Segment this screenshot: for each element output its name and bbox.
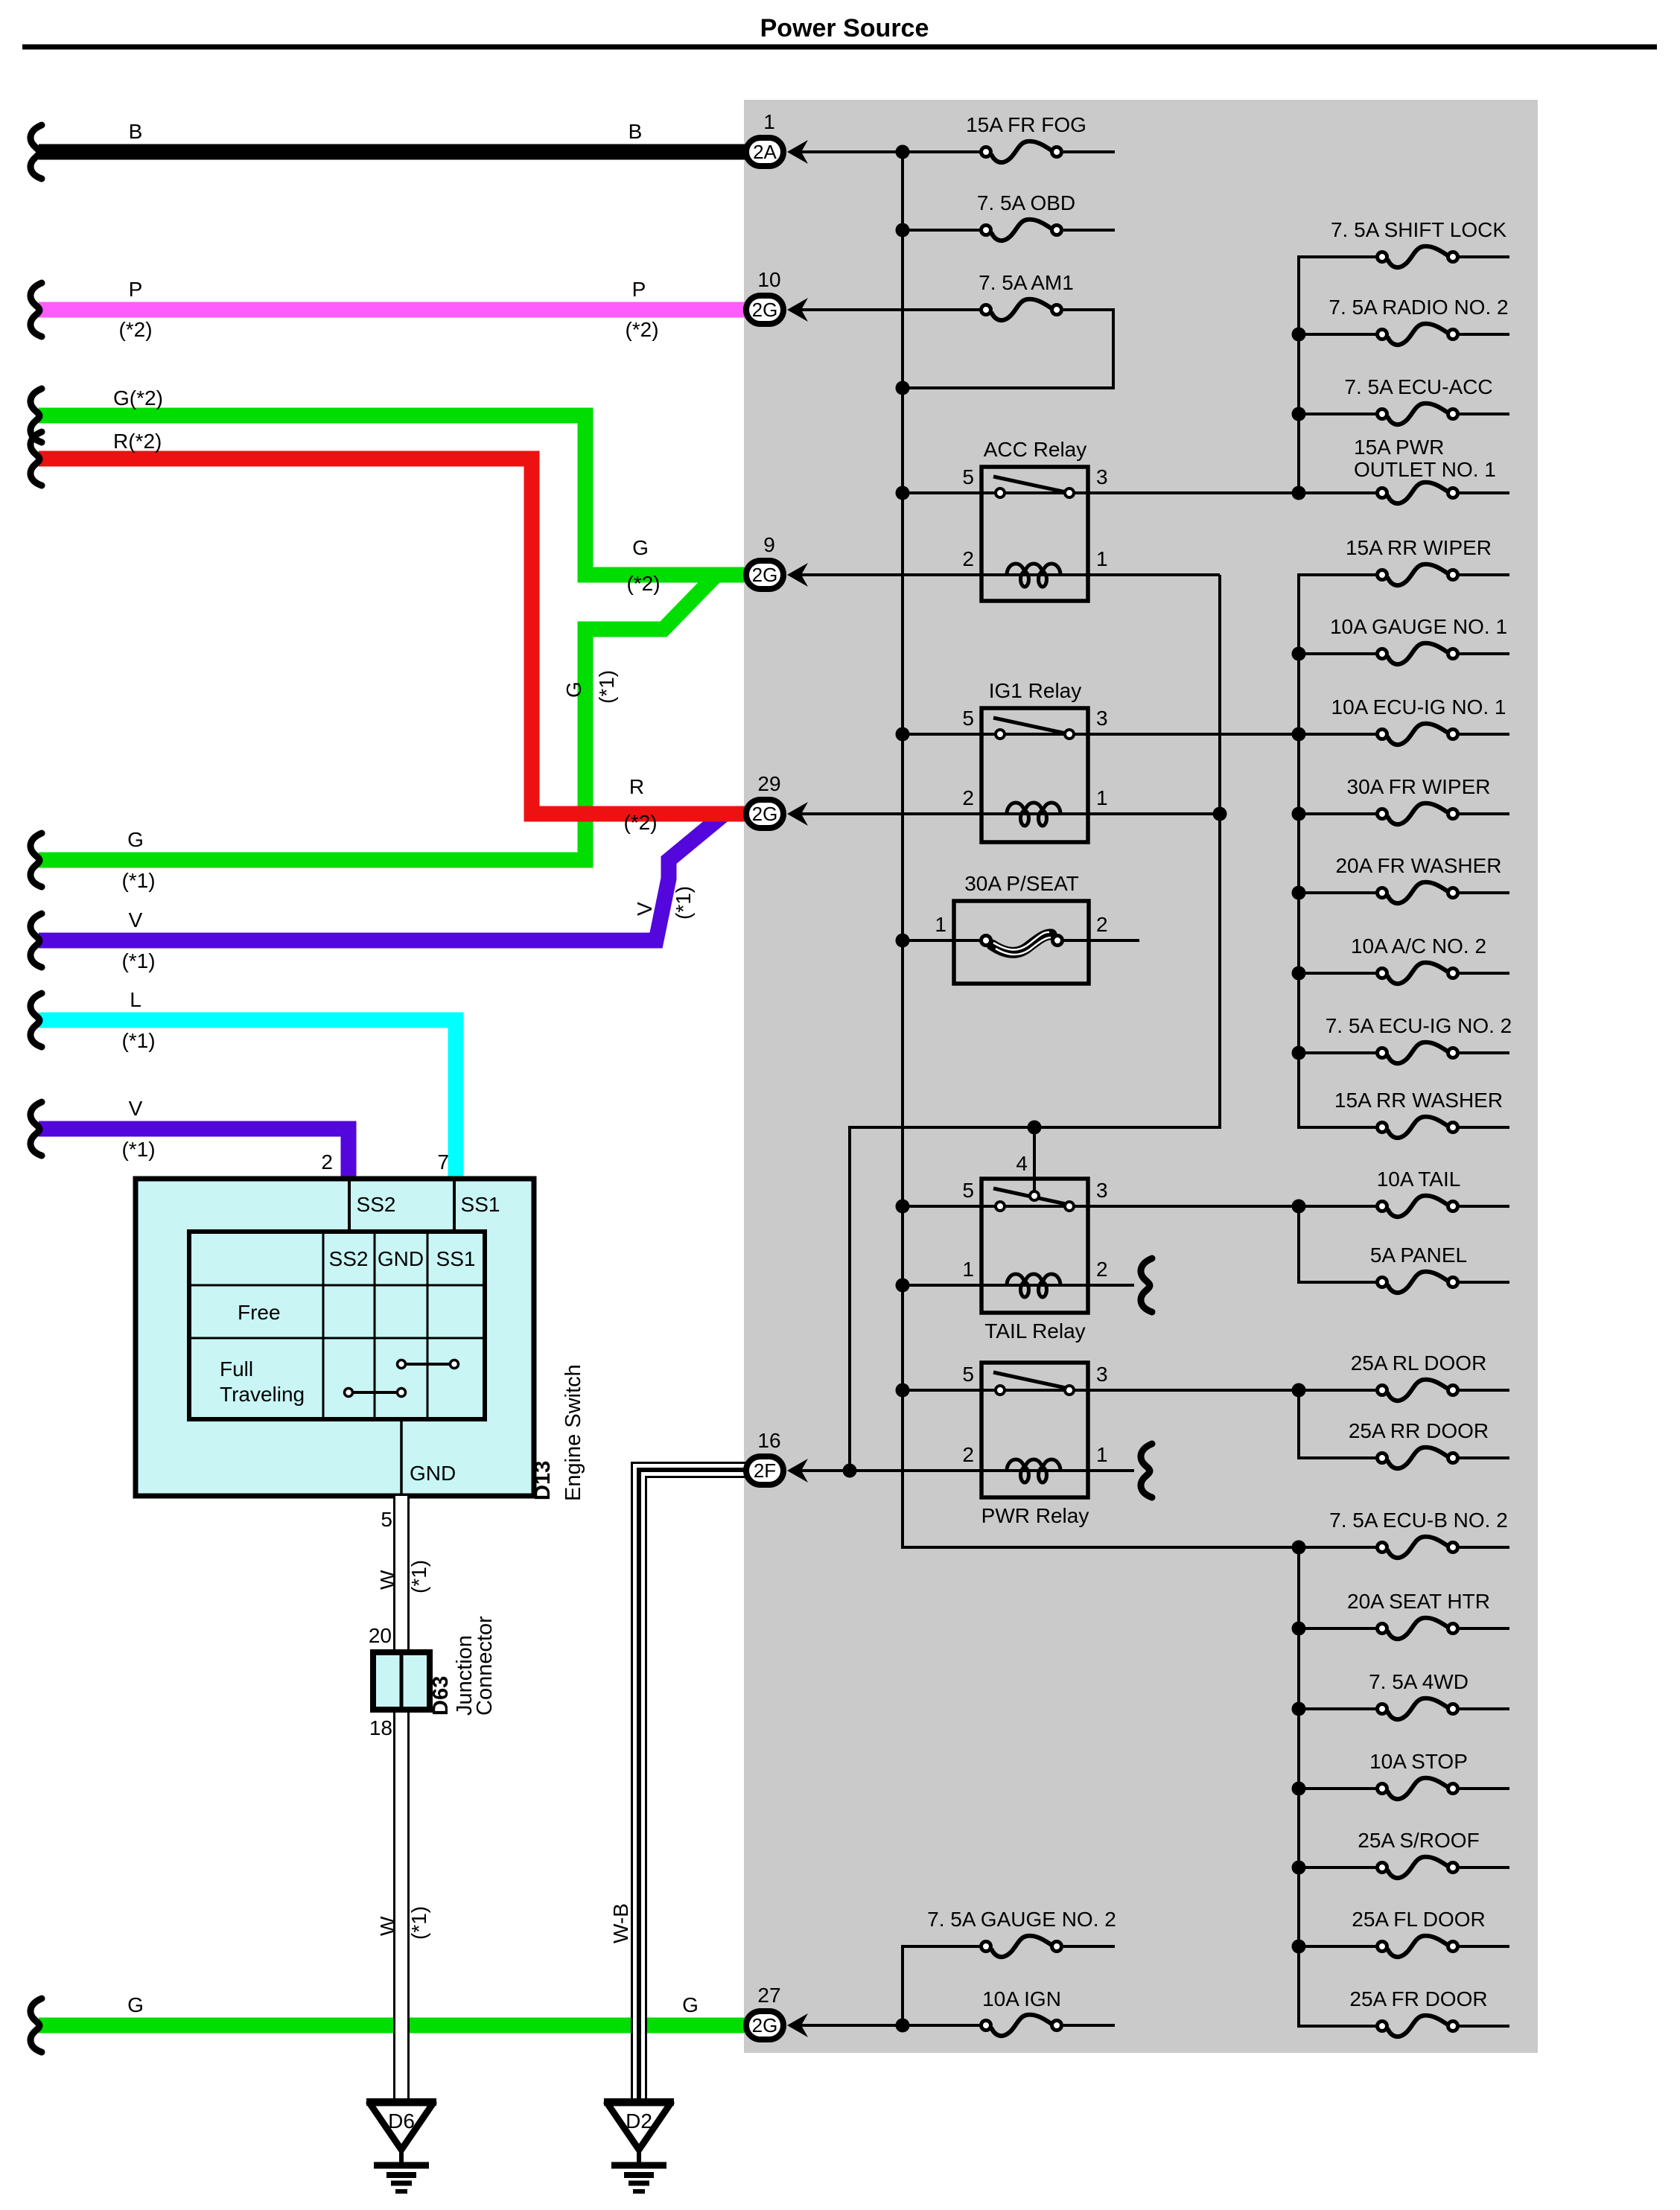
svg-text:3: 3	[1096, 1179, 1108, 1202]
wire G(*1) green	[39, 575, 748, 860]
fuse 10A STOP	[1378, 1778, 1458, 1799]
fuse 15A RR WASHER	[1378, 1117, 1458, 1138]
wire RR WIPER row	[1459, 573, 1509, 576]
door bus	[1299, 1390, 1376, 1458]
svg-text:27: 27	[757, 1984, 780, 2007]
wire GAUGE2 row	[1063, 1945, 1115, 1948]
fuse 7. 5A 4WD	[1378, 1698, 1458, 1719]
svg-text:B: B	[629, 120, 643, 143]
mid right bus (IG feed)	[1299, 575, 1376, 1127]
fuse 25A RR DOOR	[1378, 1448, 1458, 1468]
svg-text:TAIL Relay: TAIL Relay	[984, 1319, 1085, 1343]
svg-text:7. 5A SHIFT LOCK: 7. 5A SHIFT LOCK	[1331, 218, 1506, 241]
svg-text:7. 5A GAUGE NO. 2: 7. 5A GAUGE NO. 2	[927, 1908, 1116, 1931]
wire PWR coil row	[795, 1469, 1134, 1472]
svg-text:ACC Relay: ACC Relay	[984, 438, 1086, 461]
fuse 7. 5A ECU-B NO. 2	[1378, 1537, 1458, 1558]
connector 2G pin 10	[746, 268, 808, 324]
svg-text:D63: D63	[429, 1676, 453, 1716]
svg-text:1: 1	[763, 110, 775, 133]
svg-text:OUTLET NO. 1: OUTLET NO. 1	[1354, 458, 1496, 481]
wire IGN row	[795, 2024, 980, 2027]
svg-text:4: 4	[1016, 1152, 1028, 1175]
svg-text:10A ECU-IG NO. 1: 10A ECU-IG NO. 1	[1331, 695, 1506, 719]
wire bottom-left fuse feed	[903, 1946, 980, 2025]
wire G(*2) green	[39, 415, 748, 575]
svg-text:1: 1	[1096, 547, 1108, 570]
engine switch inner table	[189, 1232, 485, 1419]
wire A/C row	[1299, 972, 1376, 975]
break squiggle PWR pin1	[1141, 1444, 1152, 1497]
relay PWR Relay	[962, 1363, 1152, 1527]
wire PANEL row	[1459, 1281, 1509, 1284]
svg-text:10A GAUGE NO. 1: 10A GAUGE NO. 1	[1330, 615, 1507, 638]
wire-end curls	[31, 125, 42, 179]
wire L light blue	[39, 1020, 456, 1179]
fuse 25A RL DOOR	[1378, 1380, 1458, 1401]
svg-text:7. 5A ECU-ACC: 7. 5A ECU-ACC	[1344, 375, 1492, 398]
battery bus (left vertical)	[903, 152, 1376, 1547]
svg-text:1: 1	[1096, 1443, 1108, 1466]
svg-text:10A A/C NO. 2: 10A A/C NO. 2	[1351, 934, 1486, 958]
fuse 10A A/C NO. 2	[1378, 963, 1458, 984]
svg-text:Traveling: Traveling	[220, 1383, 305, 1406]
svg-text:Full: Full	[220, 1357, 253, 1381]
wire RR WASHER row	[1459, 1126, 1509, 1129]
fuse 10A TAIL	[1378, 1196, 1458, 1217]
svg-text:25A FR DOOR: 25A FR DOOR	[1349, 1987, 1487, 2010]
wire B black	[39, 144, 748, 160]
wire RR DOOR row	[1459, 1456, 1509, 1459]
svg-text:(*1): (*1)	[407, 1906, 430, 1940]
svg-text:(*2): (*2)	[118, 318, 152, 341]
coil return net	[850, 575, 1220, 1471]
svg-text:SS2: SS2	[357, 1193, 396, 1216]
svg-text:G: G	[127, 1993, 144, 2016]
svg-text:W: W	[376, 1916, 399, 1936]
fuse 7. 5A ECU-ACC	[1378, 404, 1458, 424]
svg-text:7. 5A ECU-B NO. 2: 7. 5A ECU-B NO. 2	[1329, 1509, 1508, 1532]
svg-text:2A: 2A	[753, 141, 777, 163]
svg-text:P: P	[129, 278, 143, 301]
tail bus	[1299, 1206, 1376, 1282]
svg-text:GND: GND	[378, 1247, 424, 1270]
fuse 10A ECU-IG NO. 1	[1378, 724, 1458, 745]
svg-text:3: 3	[1096, 465, 1108, 488]
svg-text:W: W	[376, 1570, 399, 1590]
svg-text:3: 3	[1096, 1363, 1108, 1386]
svg-text:30A FR WIPER: 30A FR WIPER	[1347, 775, 1491, 798]
svg-text:2: 2	[321, 1150, 333, 1174]
wire V(*1) to engine switch	[39, 1129, 349, 1179]
wire ACC relay row / PWR OUTLET	[903, 491, 1376, 494]
svg-text:P: P	[632, 278, 646, 301]
svg-text:R: R	[629, 775, 644, 798]
svg-text:2G: 2G	[752, 803, 778, 825]
svg-text:B: B	[129, 120, 143, 143]
engine switch D13 box	[136, 1150, 585, 1531]
wire STOP row	[1299, 1787, 1376, 1790]
fuse 7. 5A ECU-IG NO. 2	[1378, 1042, 1458, 1063]
svg-text:29: 29	[757, 772, 780, 795]
fuse 5A PANEL	[1378, 1272, 1458, 1293]
wire ECU-B row	[1459, 1546, 1509, 1549]
svg-text:G: G	[632, 536, 649, 559]
wire ECU-IG2 row	[1299, 1051, 1376, 1054]
svg-text:V: V	[633, 902, 656, 916]
svg-text:Power Source: Power Source	[760, 14, 929, 42]
wire TAIL relay row / 10A TAIL	[903, 1205, 1376, 1208]
svg-text:10A TAIL: 10A TAIL	[1377, 1168, 1461, 1191]
fuse 7. 5A RADIO NO. 2	[1378, 324, 1458, 345]
svg-text:2G: 2G	[752, 2014, 778, 2037]
wire TAIL relay pin4 feed	[1033, 1127, 1036, 1194]
svg-text:(*2): (*2)	[626, 572, 660, 595]
wire SEAT HTR row	[1299, 1627, 1376, 1630]
junction dots	[896, 145, 910, 159]
svg-text:Connector: Connector	[473, 1616, 497, 1716]
fuse 25A FL DOOR	[1378, 1936, 1458, 1957]
wire R(*2) red	[39, 459, 748, 814]
wire 2A row	[801, 150, 980, 153]
svg-text:5: 5	[962, 1179, 974, 1202]
svg-text:5: 5	[962, 707, 974, 730]
wire P pink	[39, 302, 748, 318]
svg-text:5: 5	[381, 1508, 392, 1531]
connector 2G pin 29	[746, 772, 808, 828]
wire AM1 row	[801, 308, 980, 311]
ground D6	[366, 2102, 436, 2191]
svg-text:2: 2	[1096, 913, 1108, 936]
fuse 15A RR WIPER	[1378, 564, 1458, 585]
svg-text:7. 5A AM1: 7. 5A AM1	[979, 271, 1074, 294]
GND pin line	[400, 1419, 403, 1496]
svg-text:R(*2): R(*2)	[113, 430, 162, 453]
svg-text:5A PANEL: 5A PANEL	[1370, 1243, 1467, 1267]
wire FR WIPER row	[1299, 812, 1376, 815]
svg-text:(*2): (*2)	[625, 318, 658, 341]
svg-text:9: 9	[763, 533, 775, 556]
svg-text:(*1): (*1)	[672, 886, 695, 920]
svg-text:PWR Relay: PWR Relay	[981, 1504, 1089, 1527]
svg-text:10A IGN: 10A IGN	[982, 1987, 1061, 2010]
connector 2G pin 9	[746, 533, 808, 589]
svg-text:30A P/SEAT: 30A P/SEAT	[964, 872, 1079, 895]
svg-text:2: 2	[962, 1443, 974, 1466]
svg-text:(*2): (*2)	[623, 811, 657, 834]
svg-text:20A FR WASHER: 20A FR WASHER	[1335, 854, 1501, 877]
svg-text:(*1): (*1)	[121, 1138, 155, 1161]
svg-text:V: V	[129, 1097, 143, 1120]
wire FR WASHER row	[1299, 891, 1376, 894]
wire G bottom green	[39, 2018, 748, 2034]
fuse 10A IGN	[981, 2015, 1062, 2036]
break squiggle TAIL pin2	[1141, 1258, 1152, 1312]
svg-text:1: 1	[962, 1258, 974, 1281]
circuit breaker 30A P/SEAT	[935, 872, 1107, 984]
svg-text:2: 2	[1096, 1258, 1108, 1281]
svg-text:15A RR WASHER: 15A RR WASHER	[1334, 1089, 1503, 1112]
wire FR DOOR row	[1459, 2025, 1509, 2028]
wire SHIFT LOCK row	[1459, 255, 1509, 258]
svg-text:D6: D6	[388, 2109, 415, 2133]
wire IG1 relay row / ECU-IG1	[903, 733, 1376, 736]
svg-text:G: G	[562, 681, 585, 698]
wire FL DOOR row	[1299, 1945, 1376, 1948]
svg-text:25A RL DOOR: 25A RL DOOR	[1351, 1351, 1487, 1375]
svg-text:20: 20	[369, 1624, 392, 1647]
svg-text:Free: Free	[238, 1301, 281, 1324]
svg-text:G: G	[127, 828, 144, 851]
svg-text:V: V	[129, 908, 143, 932]
svg-text:G: G	[682, 1993, 699, 2016]
wire 4WD row	[1299, 1707, 1376, 1710]
wire V(*1) violet	[39, 814, 748, 940]
svg-text:1: 1	[935, 913, 946, 936]
svg-text:Engine Switch: Engine Switch	[561, 1364, 585, 1501]
svg-text:(*1): (*1)	[595, 670, 618, 704]
connector 2F pin 16	[746, 1429, 808, 1485]
wire PWR relay row / RL DOOR	[903, 1389, 1376, 1392]
fuse 7. 5A OBD	[981, 220, 1062, 241]
svg-text:10A STOP: 10A STOP	[1369, 1750, 1468, 1773]
svg-text:D2: D2	[626, 2109, 652, 2133]
svg-text:1: 1	[1096, 786, 1108, 809]
svg-text:7: 7	[437, 1150, 449, 1174]
wire W from engine switch GND	[395, 1496, 409, 2105]
svg-text:7. 5A RADIO NO. 2: 7. 5A RADIO NO. 2	[1329, 296, 1508, 319]
svg-text:7. 5A OBD: 7. 5A OBD	[977, 191, 1075, 214]
svg-text:5: 5	[962, 1363, 974, 1386]
svg-text:(*1): (*1)	[121, 1029, 155, 1052]
svg-text:20A SEAT HTR: 20A SEAT HTR	[1347, 1590, 1490, 1613]
fuse 7. 5A AM1	[981, 299, 1062, 320]
svg-text:15A FR FOG: 15A FR FOG	[966, 113, 1086, 136]
wire RADIO row	[1299, 333, 1376, 336]
relay IG1 Relay	[962, 679, 1107, 842]
wire W-B from 2F	[632, 1463, 749, 2106]
svg-text:L: L	[130, 988, 141, 1011]
svg-text:5: 5	[962, 465, 974, 488]
svg-text:2: 2	[962, 786, 974, 809]
wire OBD row	[903, 229, 980, 232]
relay TAIL Relay	[962, 1152, 1152, 1343]
svg-text:15A RR WIPER: 15A RR WIPER	[1346, 536, 1492, 559]
svg-text:18: 18	[369, 1716, 392, 1739]
svg-text:D13: D13	[531, 1461, 555, 1500]
fuse 20A FR WASHER	[1378, 882, 1458, 903]
svg-text:3: 3	[1096, 707, 1108, 730]
junction connector D63	[369, 1616, 497, 1739]
fuse 10A GAUGE NO. 1	[1378, 643, 1458, 664]
svg-text:25A FL DOOR: 25A FL DOOR	[1352, 1908, 1485, 1931]
svg-text:W-B: W-B	[609, 1903, 632, 1943]
fuse 7. 5A SHIFT LOCK	[1378, 246, 1458, 267]
wire GAUGE1 row	[1299, 652, 1376, 655]
fuse 7. 5A GAUGE NO. 2	[981, 1936, 1062, 1957]
fuse 15A PWR OUTLET NO.1	[1378, 483, 1458, 503]
connector 2G pin 27	[746, 1984, 808, 2039]
svg-text:SS2: SS2	[329, 1247, 369, 1270]
connector 2A pin 1	[746, 110, 808, 166]
svg-text:IG1 Relay: IG1 Relay	[989, 679, 1082, 702]
svg-text:SS1: SS1	[436, 1247, 476, 1270]
svg-text:SS1: SS1	[461, 1193, 500, 1216]
title rule	[22, 45, 1657, 50]
junction block panel	[744, 100, 1538, 2053]
svg-text:16: 16	[757, 1429, 780, 1452]
svg-text:G(*2): G(*2)	[113, 386, 163, 410]
fuse 20A SEAT HTR	[1378, 1618, 1458, 1639]
svg-text:10: 10	[757, 268, 780, 291]
svg-text:7. 5A 4WD: 7. 5A 4WD	[1369, 1670, 1469, 1693]
lower right bus	[1299, 1547, 1376, 2026]
svg-text:(*1): (*1)	[121, 949, 155, 972]
wire S/ROOF row	[1299, 1866, 1376, 1869]
fuse 15A FR FOG	[981, 141, 1062, 162]
wire ECU-ACC row	[1299, 413, 1376, 415]
switch contacts full traveling	[401, 1363, 454, 1366]
svg-text:25A RR DOOR: 25A RR DOOR	[1349, 1419, 1489, 1442]
svg-text:GND: GND	[410, 1462, 456, 1485]
svg-text:2F: 2F	[754, 1459, 776, 1482]
wire IG1 coil row	[801, 812, 1220, 815]
upper right bus (ACC feed)	[1299, 257, 1376, 493]
fuse 30A FR WIPER	[1378, 803, 1458, 824]
svg-text:2G: 2G	[752, 564, 778, 586]
relay ACC Relay	[962, 438, 1107, 601]
wire TAIL coil row	[903, 1284, 1134, 1287]
ground D2	[604, 2102, 674, 2191]
fuse 25A S/ROOF	[1378, 1857, 1458, 1878]
svg-text:15A PWR: 15A PWR	[1354, 436, 1444, 459]
svg-text:2: 2	[962, 547, 974, 570]
svg-text:7. 5A ECU-IG NO. 2: 7. 5A ECU-IG NO. 2	[1326, 1014, 1512, 1037]
wire ACC coil row	[801, 573, 1220, 576]
svg-text:2G: 2G	[752, 299, 778, 321]
fuse 25A FR DOOR	[1378, 2016, 1458, 2037]
svg-text:(*1): (*1)	[407, 1560, 430, 1593]
svg-text:(*1): (*1)	[121, 869, 155, 892]
svg-text:25A S/ROOF: 25A S/ROOF	[1358, 1829, 1479, 1852]
wire P/SEAT row	[903, 939, 981, 942]
